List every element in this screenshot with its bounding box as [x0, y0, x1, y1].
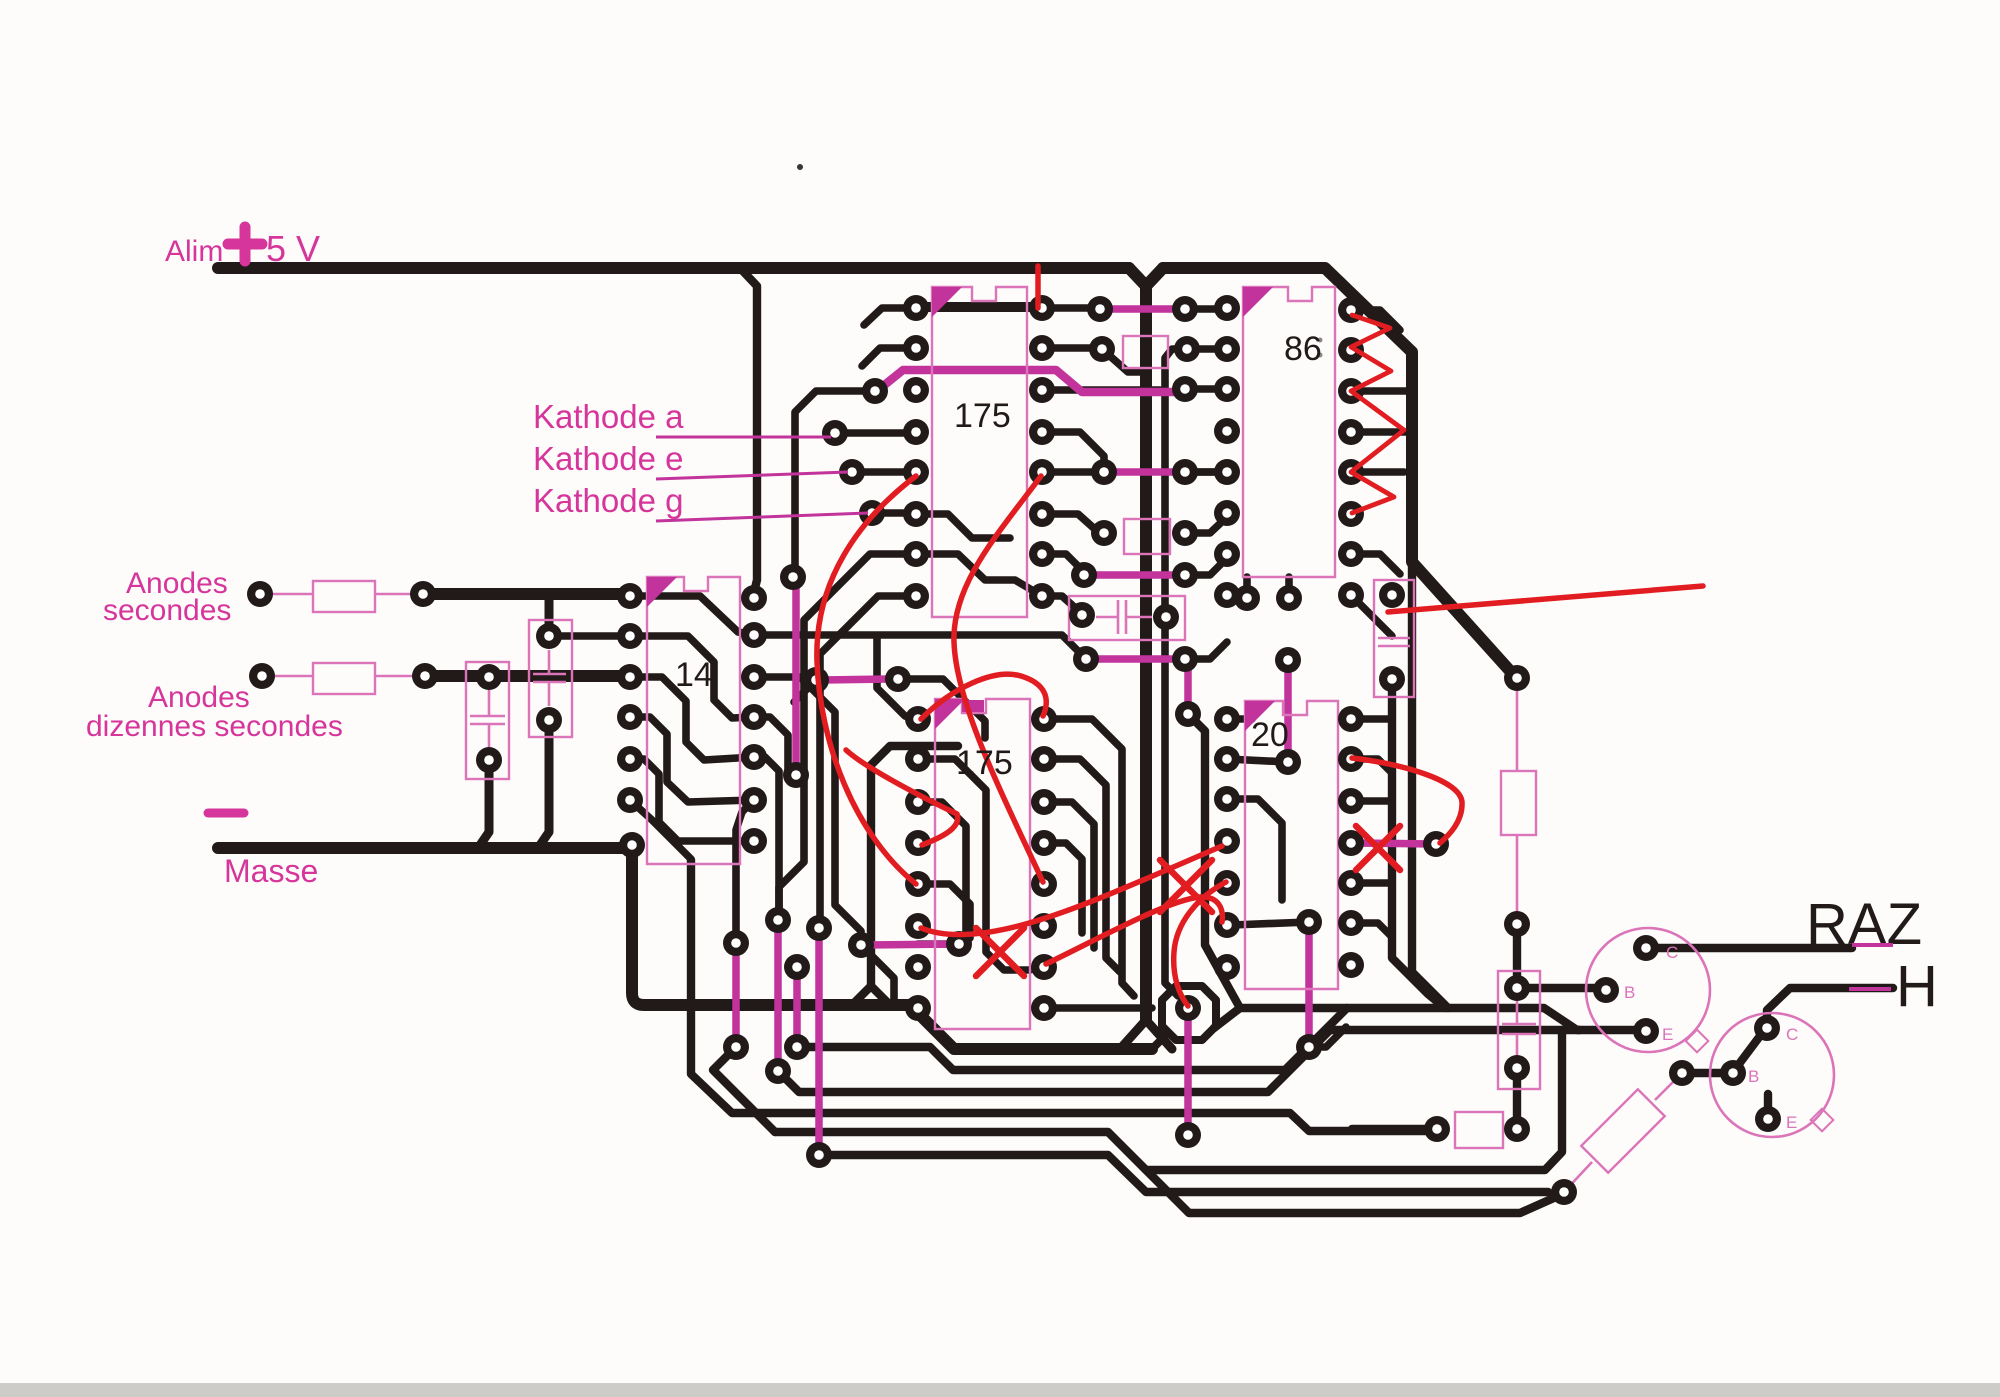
- node: [784, 954, 810, 980]
- wire link: [1042, 344, 1102, 352]
- wire IC5 boundary vertical to bus: [1188, 714, 1347, 1008]
- wire link: [1185, 558, 1227, 575]
- node: [1172, 459, 1198, 485]
- wire pad diagonal to bus: [861, 945, 894, 1002]
- wire IC2 link to jumper: [754, 717, 796, 778]
- jumper wire: [1084, 571, 1181, 579]
- IC U4 pin pad L4: [905, 830, 931, 856]
- node kathode a: [822, 420, 848, 446]
- transistor Q2 tab: [1811, 1109, 1834, 1132]
- transistor Q1 base pad: [1593, 977, 1619, 1003]
- wire Masse branch to capacitor C1: [478, 768, 489, 848]
- node: [1296, 1034, 1322, 1060]
- wire bus bottom line: [818, 1155, 1548, 1192]
- wire row link: [1042, 386, 1160, 394]
- IC U1 pin pad L4: [903, 419, 929, 445]
- IC U2 pin pad L1: [617, 583, 643, 609]
- IC U5 (20) pin-1 corner marker: [1245, 701, 1275, 731]
- wire IC4 right link bundle C: [1044, 802, 1094, 948]
- wire IC1 pin down to jumper pad: [820, 596, 916, 928]
- node: [784, 1034, 810, 1060]
- node: [412, 663, 438, 689]
- node C1 top: [476, 664, 502, 690]
- wire IC3 pin diagonal: [1351, 595, 1392, 636]
- IC U3 pin pad R6: [1338, 501, 1364, 527]
- wire: [1185, 468, 1227, 476]
- IC U3 pin pad R1: [1338, 297, 1364, 323]
- IC U3 pin pad L7: [1214, 541, 1240, 567]
- wire: [1351, 879, 1392, 887]
- jumper wire vertical: [792, 581, 800, 771]
- wire link: [1185, 385, 1227, 393]
- wire trace to jumper pad: [793, 391, 875, 575]
- node: [1504, 975, 1530, 1001]
- IC U2 pin pad L6: [617, 787, 643, 813]
- IC U1 pin pad L8: [903, 583, 929, 609]
- red annotation curve 2: [1046, 897, 1222, 964]
- IC U1 pin pad R4: [1029, 419, 1055, 445]
- resistor R2 outline: [313, 663, 375, 694]
- node: [1275, 749, 1301, 775]
- wire IC3 bottom stub 2: [1285, 577, 1293, 598]
- paper speck: [797, 164, 803, 170]
- red annotation arc left: [817, 476, 916, 884]
- wire IC3 bottom stub: [1243, 577, 1251, 598]
- node: [1669, 1060, 1695, 1086]
- transistor Q2 outline: [1710, 1013, 1834, 1137]
- wire Masse rail: [218, 842, 629, 854]
- capacitor C5 symbol: [1502, 1000, 1536, 1062]
- IC U5 pin pad L6: [1214, 912, 1240, 938]
- wire C2 top to IC2: [549, 630, 629, 636]
- IC U4 (175) pin-1 corner marker: [935, 699, 965, 729]
- red annotation curve 3: [1174, 882, 1226, 1006]
- node: [1091, 520, 1117, 546]
- jumper wire: [793, 971, 801, 1043]
- IC U4 pin pad R8: [1031, 995, 1057, 1021]
- IC U1 pin pad L6: [903, 501, 929, 527]
- wire IC2 interior 1: [630, 596, 754, 635]
- wire bus line C: [775, 1132, 1556, 1213]
- wire IC2 pin to bus vertical: [630, 800, 691, 954]
- IC U3 pin pad R3: [1338, 378, 1364, 404]
- node: [1172, 646, 1198, 672]
- svg-text:175: 175: [954, 397, 1011, 435]
- wire IC5 pin to vertical: [1351, 715, 1392, 723]
- IC U5 pin pad L4: [1214, 828, 1240, 854]
- node: [410, 581, 436, 607]
- IC U5 pin pad L2: [1214, 746, 1240, 772]
- node kathode g: [859, 500, 885, 526]
- transistor Q1 outline: [1586, 928, 1710, 1052]
- IC U5 (20) body outline: [1245, 701, 1338, 989]
- IC U5 pin pad R5: [1338, 870, 1364, 896]
- jumper wire: [732, 947, 740, 1043]
- node: [1551, 1179, 1577, 1205]
- IC U3 pin pad L2: [1214, 336, 1240, 362]
- node: [806, 915, 832, 941]
- IC U4 pin pad R1: [1031, 706, 1057, 732]
- IC U3 pin pad L6: [1214, 500, 1240, 526]
- wire RAZ line: [1646, 944, 1852, 952]
- wire H line: [1767, 988, 1893, 1028]
- red X mark 2: [1160, 860, 1212, 912]
- jumper wire: [774, 924, 782, 1067]
- wire IC4 right link bundle D: [1044, 843, 1082, 933]
- svg-text:H: H: [1896, 954, 1938, 1019]
- wire IC4 interior 1: [918, 759, 1030, 970]
- wire T2 base link: [1684, 1069, 1733, 1077]
- red annotation hook: [921, 674, 1046, 719]
- wire +5V branch down to IC2 pin: [740, 268, 757, 592]
- svg-text:RAZ: RAZ: [1806, 892, 1922, 957]
- red annotation arc middle: [954, 476, 1043, 882]
- wire IC3 pin stub: [1351, 554, 1400, 574]
- wire IC2 interior 2: [630, 636, 754, 718]
- jumper wire: [1086, 655, 1181, 663]
- wire IC1 interior trace: [916, 554, 1042, 596]
- wire left staircase to bus line: [691, 860, 1425, 1131]
- IC U3 pin pad L3: [1214, 376, 1240, 402]
- node: [1172, 520, 1198, 546]
- capacitor C2 outline: [529, 620, 572, 737]
- IC U5 pin pad R7: [1338, 952, 1364, 978]
- node: [1172, 296, 1198, 322]
- IC U3 (86) pin-1 corner marker: [1243, 287, 1273, 317]
- wire IC4 interior 2: [918, 802, 966, 942]
- IC U4 pin pad L2: [905, 746, 931, 772]
- jumper wire: [1305, 926, 1313, 1043]
- wire central vertical junction legs: [1120, 1020, 1172, 1049]
- IC U1 pin pad L7: [903, 541, 929, 567]
- transistor Q2 collector pad: [1754, 1015, 1780, 1041]
- IC U3 pin pad L5: [1214, 459, 1240, 485]
- scanner edge band bottom: [0, 1383, 2000, 1397]
- wire link to central: [1102, 349, 1146, 372]
- IC U2 (14) pin-1 corner marker: [647, 577, 677, 607]
- node jumper start: [862, 378, 888, 404]
- IC U4 pin pad L8: [905, 995, 931, 1021]
- IC U5 pin pad L7: [1214, 954, 1240, 980]
- IC U5 pin pad L1: [1214, 706, 1240, 732]
- wire: [1351, 923, 1392, 937]
- wire pad link: [1232, 922, 1309, 925]
- wire IC3 pin stub: [1351, 310, 1400, 330]
- node: [848, 932, 874, 958]
- jumper wire: [1106, 305, 1181, 313]
- wire bus junction notch: [852, 986, 890, 1005]
- IC U4 pin pad R2: [1031, 746, 1057, 772]
- resistor R3 outline vertical: [1501, 771, 1536, 835]
- wire branch to IC4 pin: [877, 637, 918, 719]
- jumper wire: [1355, 843, 1433, 844]
- component outline right of IC3: [1374, 580, 1414, 697]
- wire ring trace around via: [1162, 986, 1216, 1040]
- wire IC2 to pad: [754, 677, 861, 943]
- node: [1234, 585, 1260, 611]
- wire link top: [1042, 304, 1098, 312]
- kathode e lead: [656, 472, 848, 479]
- IC U2 pin pad R1: [741, 585, 767, 611]
- wire +5V rail middle section: [740, 262, 1129, 274]
- IC U4 pin pad R4: [1031, 830, 1057, 856]
- wire IC2 interior 4: [630, 717, 754, 802]
- svg-text:5 V: 5 V: [266, 228, 320, 269]
- IC U3 pin pad L1: [1214, 295, 1240, 321]
- wire IC1 top bar: [920, 302, 1036, 312]
- svg-text:dizennes secondes: dizennes secondes: [86, 710, 343, 743]
- IC U1 pin pad R5: [1029, 459, 1055, 485]
- wire resistor to bus: [1352, 1125, 1437, 1133]
- capacitor C3 symbol: [1096, 600, 1152, 634]
- node: [1071, 562, 1097, 588]
- IC U2 pin pad R7: [741, 828, 767, 854]
- wire link: [1042, 514, 1097, 531]
- wire T2 E stub: [1764, 1094, 1772, 1119]
- IC U5 pin pad R4: [1338, 830, 1364, 856]
- IC U1 pin pad R7: [1029, 541, 1055, 567]
- node: [946, 931, 972, 957]
- wire jumper pad to IC4 notch: [898, 679, 985, 738]
- wire link: [1185, 642, 1227, 659]
- IC U3 pin pad R7: [1338, 541, 1364, 567]
- node: [1073, 646, 1099, 672]
- node: [1091, 459, 1117, 485]
- wire IC2 interior 3: [630, 677, 754, 760]
- IC U2 pin pad L5: [617, 746, 643, 772]
- IC U1 pin pad R8: [1029, 583, 1055, 609]
- node: [803, 667, 829, 693]
- wire thin vertical beside central: [1165, 349, 1187, 996]
- wire IC1 pin down left: [779, 554, 916, 918]
- node: [1504, 1116, 1530, 1142]
- wire row link6: [1042, 596, 1082, 614]
- jumper wire: [1184, 666, 1192, 711]
- wire stub: [862, 348, 916, 366]
- wire link: [1185, 517, 1227, 533]
- node jumper top: [780, 564, 806, 590]
- wire IC4 right link bundle A: [1044, 719, 1134, 996]
- wire pad link to boundary: [1311, 1027, 1346, 1047]
- wire long row trace: [754, 635, 1086, 659]
- IC U1 pin pad R2: [1029, 335, 1055, 361]
- wire central vertical trace: [1129, 268, 1146, 1020]
- IC U2 pin pad L2: [617, 623, 643, 649]
- node jumper bottom: [783, 762, 809, 788]
- label +5V plus symbol: [228, 227, 262, 261]
- svg-text:C: C: [1666, 943, 1678, 962]
- node via: [1175, 995, 1201, 1021]
- wire branch to C2: [545, 594, 554, 630]
- wire IC3 pin stub: [1351, 468, 1404, 476]
- IC U4 pin pad R5: [1031, 871, 1057, 897]
- node: [1172, 376, 1198, 402]
- wire: [1351, 759, 1392, 773]
- node anodes dizennes input: [249, 663, 275, 689]
- wire kathode g link: [872, 509, 916, 517]
- IC U1 pin pad R1: [1029, 295, 1055, 321]
- wire link: [1185, 468, 1227, 476]
- IC U3 pin pad R8: [1338, 582, 1364, 608]
- svg-text:Kathode a: Kathode a: [533, 398, 684, 435]
- IC U5 pin pad L5: [1214, 870, 1240, 896]
- IC U5 pin pad L3: [1214, 786, 1240, 812]
- svg-text:C: C: [1786, 1025, 1798, 1044]
- jumper wire: [1184, 1012, 1192, 1131]
- red annotation coil right of IC3: [1351, 315, 1404, 513]
- IC U4 (175) body outline: [935, 699, 1030, 1029]
- resistor R5 leads: [1564, 1073, 1682, 1192]
- red annotation long line: [1388, 586, 1703, 612]
- svg-text:20: 20: [1251, 716, 1289, 754]
- capacitor C1 symbol: [470, 690, 505, 748]
- node C3 left: [1069, 602, 1095, 628]
- wire bus line 4 join: [713, 1047, 775, 1132]
- node: [1504, 665, 1530, 691]
- IC U4 pin pad L3: [905, 789, 931, 815]
- IC U4 pin pad L7: [905, 954, 931, 980]
- wire pad to ring: [1044, 1004, 1152, 1012]
- IC U2 pin pad R3: [741, 664, 767, 690]
- jumper wire long horizontal: [877, 370, 1181, 392]
- capacitor C5 outline: [1498, 971, 1540, 1089]
- IC U5 pin pad R2: [1338, 746, 1364, 772]
- svg-text:Masse: Masse: [224, 853, 318, 889]
- wire stub: [1227, 715, 1252, 723]
- wire row link2: [1042, 432, 1104, 472]
- node: [1175, 1122, 1201, 1148]
- capacitor C4 symbol: [1378, 638, 1410, 646]
- wire IC3 pin stub: [1351, 387, 1408, 395]
- IC U5 pin pad R1: [1338, 706, 1364, 732]
- jumper wire horizontal short: [822, 679, 892, 680]
- IC U2 pin pad L3: [617, 664, 643, 690]
- IC U4 pin pad L6: [905, 913, 931, 939]
- svg-text:B: B: [1624, 983, 1635, 1002]
- node: [1504, 911, 1530, 937]
- wire pad link: [1227, 759, 1288, 762]
- red annotation curve 4: [1352, 758, 1462, 843]
- capacitor C1 outline: [466, 662, 509, 779]
- node: [1172, 562, 1198, 588]
- capacitor C2 symbol: [533, 650, 566, 706]
- jumper wire: [1284, 664, 1292, 758]
- kathode g lead: [656, 513, 868, 521]
- IC U4 pin pad L5: [905, 871, 931, 897]
- wire IC4 right link bundle B: [1044, 759, 1120, 972]
- red X mark 3: [1356, 826, 1400, 870]
- svg-text:B: B: [1748, 1067, 1759, 1086]
- svg-text:Kathode e: Kathode e: [533, 440, 683, 477]
- IC U1 pin pad L5: [903, 459, 929, 485]
- resistor R2 leads: [274, 675, 413, 678]
- transistor Q1 collector pad: [1633, 935, 1659, 961]
- wire vertical trace A to bus: [1392, 688, 1445, 1008]
- transistor Q1 emitter pad: [1633, 1018, 1659, 1044]
- wire link: [1187, 345, 1227, 353]
- wire T1 base link: [1518, 984, 1604, 992]
- wire IC2 interior 5: [630, 759, 754, 841]
- IC U3 pin pad R5: [1338, 459, 1364, 485]
- IC U1 pin pad L1: [903, 295, 929, 321]
- resistor R3 leads: [1516, 690, 1519, 918]
- svg-text:secondes: secondes: [103, 594, 231, 627]
- IC U4 pin pad R6: [1031, 913, 1057, 939]
- wire IC2 link down: [754, 757, 779, 918]
- node: [1296, 909, 1322, 935]
- IC U1 pin pad R3: [1029, 377, 1055, 403]
- IC U2 pin pad R4: [741, 704, 767, 730]
- wire: [1351, 797, 1392, 805]
- node anodes secondes input: [247, 581, 273, 607]
- node: [765, 1058, 791, 1084]
- node: [723, 930, 749, 956]
- IC U4 pin pad L1: [905, 706, 931, 732]
- IC U1 pin pad R6: [1029, 501, 1055, 527]
- IC U5 pin pad R3: [1338, 788, 1364, 814]
- wire +5V rail from Alim: [218, 262, 740, 274]
- wire stub: [1162, 617, 1170, 625]
- IC U4 notch magenta fill: [962, 700, 984, 712]
- label minus symbol: [208, 809, 244, 818]
- resistor R1 leads: [272, 593, 411, 596]
- wire anodes dizennes to IC2 pin: [425, 670, 629, 682]
- IC U2 pin pad L4: [617, 704, 643, 730]
- wire Y junction: [1146, 268, 1163, 286]
- wire cap to resistor: [1513, 1068, 1521, 1129]
- red annotation tick at +5V: [1035, 266, 1041, 308]
- svg-text:Alim: Alim: [165, 235, 223, 268]
- IC U2 pin pad R5: [741, 744, 767, 770]
- kathode a lead: [656, 436, 831, 439]
- node: [1087, 296, 1113, 322]
- node: [1089, 336, 1115, 362]
- IC U3 pin pad L8: [1214, 582, 1240, 608]
- node: [1424, 1116, 1450, 1142]
- component outline small mid: [1124, 519, 1170, 554]
- node: [723, 1034, 749, 1060]
- IC U1 (175) body outline: [932, 287, 1027, 617]
- node: [806, 1142, 832, 1168]
- node C2 top: [536, 623, 562, 649]
- wire IC4 left boundary: [871, 746, 958, 986]
- IC U2 pin pad R6: [741, 787, 767, 813]
- wire ground bus thick: [632, 845, 1152, 1049]
- wire IC2 link down 2: [736, 800, 754, 941]
- IC U2 (14) body outline: [647, 577, 740, 864]
- wire ring exit: [1214, 1008, 1240, 1028]
- wire bus return line: [1147, 1030, 1562, 1170]
- node: [1379, 582, 1405, 608]
- IC U3 pin pad R2: [1338, 337, 1364, 363]
- wire pad link: [918, 940, 959, 948]
- wire cap link: [1513, 924, 1521, 988]
- svg-text:86: 86: [1284, 330, 1322, 368]
- wire vertical trace B to bus: [1412, 566, 1448, 1008]
- IC U1 pin pad L2: [903, 335, 929, 361]
- wire IC3 pin stub: [1351, 428, 1408, 436]
- wire Masse branch to capacitor C2: [538, 728, 549, 848]
- node C1 bottom: [476, 747, 502, 773]
- wire IC4 interior 3: [918, 884, 970, 938]
- IC U2 pin pad R2: [741, 622, 767, 648]
- IC U1 (175) pin-1 corner marker: [932, 287, 962, 317]
- red X mark 1: [976, 928, 1024, 976]
- red annotation check: [846, 750, 958, 845]
- node: [1379, 666, 1405, 692]
- node: [1276, 585, 1302, 611]
- IC U2 pin pad L7 / Masse node: [619, 832, 645, 858]
